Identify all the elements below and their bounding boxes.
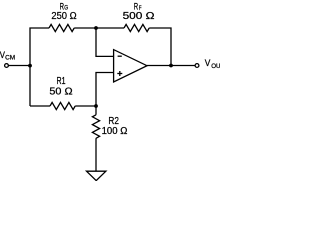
wire left vertical [30,28,49,106]
node B dot (divider) [94,104,98,108]
resistor R2 [92,115,99,138]
op-amp U1 [114,50,147,82]
op-amp plus sign [117,73,122,75]
wire bottom rail [30,105,50,107]
wire output [147,65,195,67]
svg-text:250 Ω: 250 Ω [51,11,76,22]
node A dot (inverting) [94,26,98,30]
wire minus branch [96,28,114,56]
wire RG to RF [74,27,124,29]
wire VCM to node [9,65,30,67]
svg-text:50 Ω: 50 Ω [49,86,73,97]
svg-text:500 Ω: 500 Ω [123,11,155,22]
resistor RG [49,24,74,31]
terminal VOUT [195,64,199,68]
svg-text:CM: CM [5,54,15,61]
svg-text:V: V [205,58,211,68]
ground [87,171,106,180]
svg-text:R1: R1 [57,76,66,87]
wire R1 to node [75,105,96,107]
svg-text:OUT: OUT [211,63,220,70]
resistor R1 [50,102,75,109]
wire node to R2 [95,106,97,115]
svg-text:R: R [134,1,139,11]
wire R2 to ground [95,138,97,171]
wire plus branch [96,73,114,107]
op-amp minus sign [118,55,122,57]
resistor RF [124,24,149,31]
terminal VCM [5,64,9,68]
node VCM dot [28,64,32,68]
node output dot [169,64,173,68]
wire RF to right corner [149,28,171,66]
svg-text:100 Ω: 100 Ω [102,126,128,137]
